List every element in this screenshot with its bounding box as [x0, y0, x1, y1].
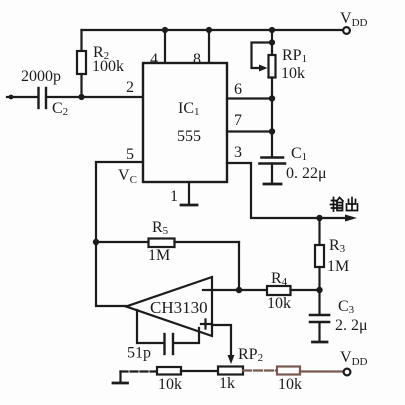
ground bottom left: [113, 372, 128, 384]
svg-text:1M: 1M: [327, 258, 349, 275]
capacitor C1: [260, 158, 286, 184]
op-amp U1 555 IC box: [143, 63, 227, 182]
wire 10k to RP2: [181, 370, 218, 372]
svg-text:R3: R3: [329, 237, 346, 255]
wire C2 to pin 2: [46, 96, 143, 98]
svg-text:C2: C2: [52, 100, 68, 118]
wire RP2 to 10k right: [243, 369, 277, 371]
node pin 6 junction: [269, 95, 275, 101]
svg-text:10k: 10k: [267, 295, 291, 312]
svg-text:51p: 51p: [127, 345, 151, 362]
resistor R5: [96, 239, 239, 248]
svg-text:RP2: RP2: [238, 346, 263, 364]
node Vc junction: [93, 239, 99, 245]
svg-text:7: 7: [234, 112, 242, 129]
potentiometer RP1: [269, 30, 276, 157]
svg-text:CH3130: CH3130: [150, 298, 208, 317]
svg-text:2. 2μ: 2. 2μ: [335, 317, 368, 334]
op-amp plus sign: [201, 320, 210, 329]
wire noninverting input to RP2 wiper: [212, 325, 231, 358]
svg-text:RP1: RP1: [282, 47, 307, 65]
svg-text:1: 1: [170, 188, 178, 205]
resistor R2: [77, 30, 86, 97]
node RP1 rail: [269, 27, 275, 33]
node output junction: [316, 215, 322, 221]
wire R5 to inverting node: [238, 242, 240, 290]
node R3 C3 R4 junction: [316, 287, 322, 293]
terminal VDD top: [343, 27, 350, 34]
svg-text:8: 8: [193, 51, 201, 68]
wire pin 1: [188, 182, 190, 204]
op-amp U2 CH3130: [126, 277, 212, 336]
wire pin 7: [227, 130, 272, 132]
wire 10k to VDD bottom: [300, 370, 343, 372]
RP1 wiper arrowhead: [259, 65, 268, 72]
capacitor C2: [39, 88, 47, 108]
svg-text:5: 5: [126, 146, 134, 163]
wire pin 4: [164, 30, 166, 63]
svg-text:C3: C3: [338, 298, 355, 316]
ground pin 1: [181, 204, 197, 207]
svg-text:10k: 10k: [278, 376, 302, 393]
wire pin 5: [96, 162, 143, 242]
svg-text:R4: R4: [271, 270, 288, 288]
wire pin 8: [208, 30, 210, 63]
resistor R4: [239, 286, 319, 295]
capacitor 51p loop wire left: [137, 310, 163, 343]
RP2 wiper arrowhead: [228, 355, 235, 364]
input terminal dot: [9, 95, 14, 100]
node pin8 rail: [206, 27, 212, 33]
wire pin 6: [227, 97, 272, 99]
terminal VDD bottom: [344, 369, 351, 376]
svg-text:R5: R5: [152, 219, 169, 237]
resistor R3: [315, 218, 324, 290]
resistor 10k bottom right: [277, 367, 300, 375]
svg-text:6: 6: [234, 81, 242, 98]
wire input to C2: [7, 96, 37, 98]
svg-text:VDD: VDD: [340, 10, 368, 29]
svg-text:2: 2: [126, 79, 134, 96]
svg-text:4: 4: [150, 51, 158, 68]
node RP1 wiper top: [269, 39, 275, 45]
node inverting input junction: [236, 287, 242, 293]
svg-text:3: 3: [234, 144, 242, 161]
capacitor 51p: [165, 334, 174, 354]
svg-text:1k: 1k: [219, 375, 235, 392]
wire RP1 wiper loop: [252, 43, 273, 69]
svg-text:10k: 10k: [281, 65, 305, 82]
svg-text:0. 22μ: 0. 22μ: [286, 165, 327, 182]
potentiometer RP2 1k: [218, 367, 243, 375]
svg-text:VC: VC: [118, 167, 137, 186]
op-amp minus sign: [203, 289, 210, 291]
wire inverting input: [212, 289, 239, 291]
output arrowhead: [345, 215, 357, 222]
resistor 10k bottom left: [157, 367, 181, 375]
svg-text:100k: 100k: [92, 58, 124, 75]
node R2 bottom junction: [78, 94, 84, 100]
svg-text:VDD: VDD: [340, 349, 368, 368]
wire 51p right to plus edge: [174, 328, 199, 343]
ground C1: [264, 183, 281, 186]
wire VDD rail top: [82, 29, 343, 31]
wire op-amp output to Vc node: [96, 242, 126, 306]
wire ground to 10k: [121, 370, 158, 372]
node pin 7 junction: [269, 128, 275, 134]
label output (shuchu): [331, 198, 358, 212]
svg-text:10k: 10k: [158, 376, 182, 393]
node pin4 rail: [162, 27, 168, 33]
svg-text:555: 555: [177, 128, 201, 145]
svg-text:1M: 1M: [148, 247, 170, 264]
ground C3: [313, 341, 328, 344]
svg-text:C1: C1: [291, 145, 307, 163]
svg-text:2000p: 2000p: [21, 68, 61, 85]
wire pin 3 to output: [227, 163, 352, 218]
capacitor C3: [310, 290, 329, 341]
